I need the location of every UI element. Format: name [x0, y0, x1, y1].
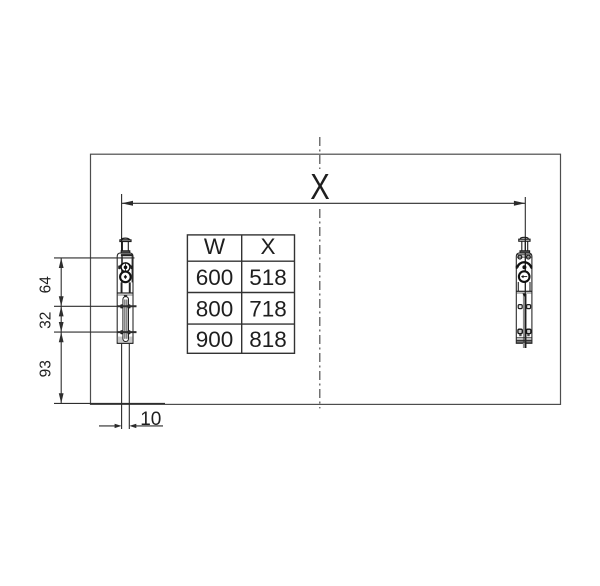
- left hanger body: [117, 238, 133, 344]
- svg-text:800: 800: [196, 296, 234, 321]
- left hanger side knobs at lower crossing: [120, 330, 123, 334]
- right hanger peg cap: [520, 237, 528, 240]
- right hanger collar: [520, 251, 530, 253]
- right hanger central shaft line: [524, 253, 526, 294]
- svg-text:X: X: [260, 234, 275, 259]
- right hanger lower cam circle: [519, 271, 530, 282]
- left hanger peg cap: [121, 238, 130, 240]
- right hanger housing top line: [517, 254, 532, 256]
- table W/X: [187, 235, 294, 353]
- svg-text:93: 93: [37, 360, 54, 377]
- dimension X: dimension line: [122, 202, 526, 204]
- right hanger cam arc: [517, 262, 531, 267]
- dimension 10: right tail and arrowhead: [136, 425, 163, 427]
- panel outline: [91, 154, 561, 404]
- left hanger upper cam arc: [121, 263, 131, 266]
- left hanger slot: [123, 297, 129, 342]
- dimension chain arrowheads: [59, 258, 64, 404]
- dimension 10: right extension line below hanger: [128, 344, 130, 430]
- dimension chain 64/32/93: extension lines: [54, 258, 165, 404]
- dimension X: left extension line: [121, 194, 123, 429]
- left hanger window side bars: [121, 282, 123, 292]
- right hanger shaft band: [523, 294, 526, 348]
- svg-text:600: 600: [196, 265, 234, 290]
- svg-text:W: W: [204, 234, 226, 259]
- left hanger side knobs at upper crossing: [120, 304, 123, 308]
- left hanger collar: [121, 251, 130, 253]
- left hanger divider: [117, 292, 133, 294]
- right hanger screw tails: [519, 334, 521, 336]
- svg-text:900: 900: [196, 327, 234, 352]
- svg-text:X: X: [310, 166, 330, 207]
- left hanger gray bottom band: [118, 337, 132, 342]
- dimension chain vertical line: [60, 258, 62, 404]
- right hanger peg stem: [521, 241, 523, 251]
- svg-text:64: 64: [37, 276, 54, 294]
- dimension X: right arrowhead: [514, 201, 525, 206]
- left hanger housing top band: [121, 254, 133, 256]
- svg-text:10: 10: [140, 409, 161, 430]
- left hanger bottom cap line: [117, 342, 133, 344]
- vertical centerline (dash-dot): [319, 137, 321, 408]
- left hanger wedge: [124, 295, 128, 298]
- right hanger inner side lines: [517, 282, 519, 291]
- dimension X: right extension line: [524, 197, 526, 348]
- left hanger lower cam circle: [120, 272, 131, 283]
- right hanger bottom plate: [516, 337, 532, 339]
- left hanger upper cam circle: [121, 263, 130, 272]
- svg-text:818: 818: [249, 327, 287, 352]
- right hanger body: [516, 237, 533, 348]
- dimension 10: left tail and arrowhead: [99, 425, 116, 427]
- right hanger ears: [516, 265, 518, 269]
- svg-text:32: 32: [37, 312, 54, 329]
- right hanger divider: [516, 290, 532, 292]
- right hanger screw pair upper: [518, 305, 522, 309]
- svg-text:518: 518: [249, 265, 287, 290]
- right hanger screw pair lower: [518, 329, 522, 333]
- dimension X: left arrowhead: [122, 201, 133, 206]
- right hanger wedge: [523, 294, 527, 297]
- right hanger top screws: [518, 255, 522, 259]
- svg-text:718: 718: [249, 296, 287, 321]
- left hanger peg stem: [121, 242, 123, 252]
- left hanger inner side bars (upper): [121, 256, 123, 282]
- left hanger ears: [118, 265, 120, 269]
